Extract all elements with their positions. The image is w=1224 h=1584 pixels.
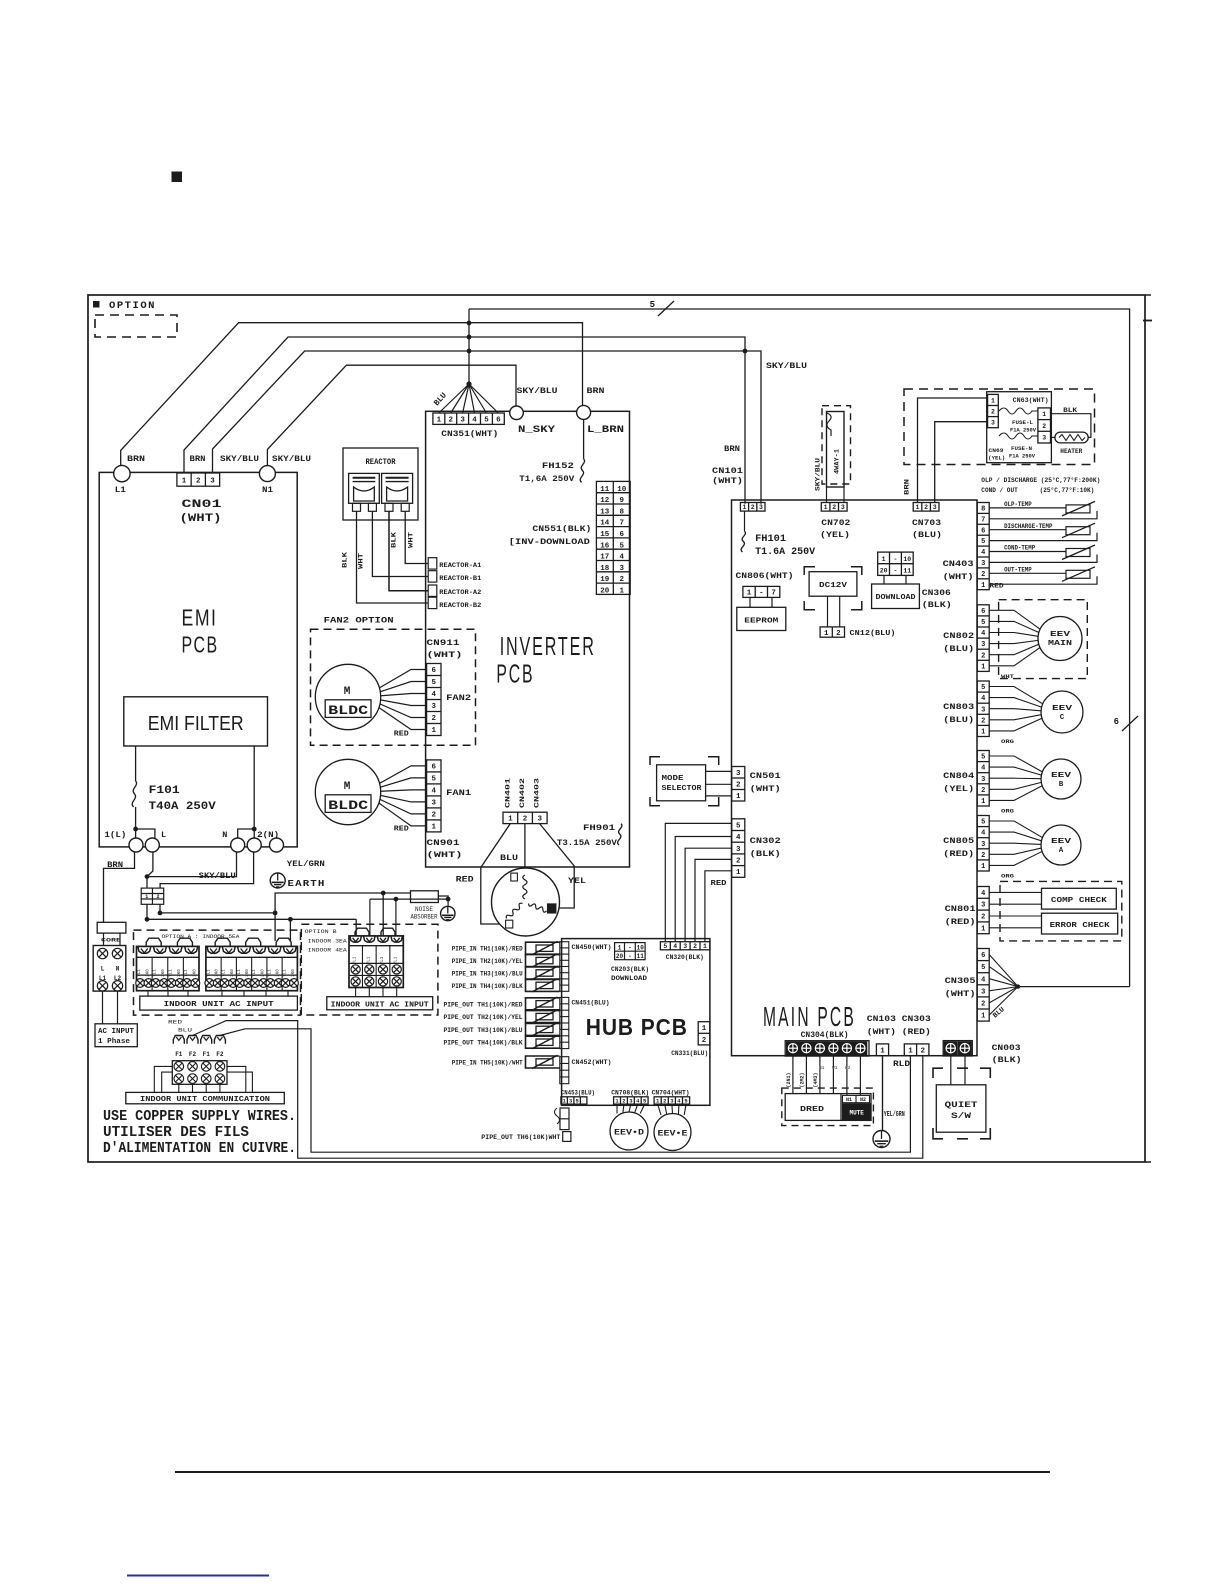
wire N distribution [160,911,278,942]
svg-text:CN501: CN501 [750,771,781,781]
svg-text:-: - [759,590,764,598]
svg-text:INDOOR 3EA: INDOOR 3EA [308,938,348,945]
svg-text:PIPE_IN TH2(10K)/YEL: PIPE_IN TH2(10K)/YEL [452,958,523,965]
svg-text:ORG: ORG [1001,808,1015,815]
svg-text:3: 3 [981,841,985,849]
text D'ALIMENTATION EN CUIVRE. [103,1140,296,1157]
label FAN2 OPTION [324,616,394,626]
label CN703 (BLU) [912,518,942,540]
svg-text:REACTOR-A1: REACTOR-A1 [439,562,481,570]
label CN69 (YEL) [988,447,1005,462]
valve EEV-E [654,1114,691,1151]
svg-text:2: 2 [1042,423,1046,430]
OPTION A INDOOR UNIT AC INPUT box [140,996,298,1010]
reactor coil module 2 [382,473,413,503]
svg-text:BLDC: BLDC [328,703,368,718]
svg-text:20: 20 [880,568,888,575]
svg-text:R1: R1 [819,1065,825,1071]
svg-text:(YEL): (YEL) [820,530,850,540]
svg-text:5: 5 [663,943,667,950]
OPTION A dashed box [134,930,301,1015]
svg-text:8: 8 [981,505,985,513]
text USE COPPER SUPPLY WIRES. [103,1108,296,1125]
AC INPUT 1 Phase box [95,1024,137,1047]
svg-text:3: 3 [759,504,763,511]
wire L1 to L_BRN [121,323,583,466]
svg-text:F2: F2 [216,1051,224,1058]
thermistor PIPE_IN TH1(10K)/RED [452,941,560,954]
wire grid left down [145,904,150,921]
svg-text:YL1: YL1 [268,969,272,977]
motor FAN1 BLDC [315,759,380,824]
svg-text:3: 3 [1042,434,1046,441]
HUB PCB box [562,939,710,1106]
svg-text:USE COPPER SUPPLY WIRES.: USE COPPER SUPPLY WIRES. [103,1108,296,1125]
label SKY/BLU (N_SKY wire) [517,386,558,396]
svg-text:CORE: CORE [101,937,122,944]
label CN101 (WHT) [712,466,743,486]
terminal N [231,838,245,852]
svg-text:BRN: BRN [127,454,145,464]
wire jumper to N [238,829,255,838]
terminal CN304 [785,1041,869,1056]
svg-text:(WHT): (WHT) [712,476,743,486]
svg-text:RED: RED [394,826,410,834]
connector CN551 table [596,481,630,595]
svg-text:(BLU): (BLU) [912,530,942,540]
svg-text:COND / OUT (25°C,77°F:10K: COND / OUT (25°C,77°F:10K) [981,486,1094,495]
label L [161,830,166,840]
svg-text:PCB: PCB [182,632,219,658]
label YEL compressor [568,876,586,886]
svg-text:4: 4 [472,416,477,424]
label tiny CN802 [1001,673,1015,680]
connector CN501 [732,767,745,802]
OPTION A terminal sub-block 1 [136,938,200,990]
svg-text:F101: F101 [149,785,180,797]
label CN351(WHT) [441,430,498,439]
svg-text:1: 1 [908,1048,913,1056]
wire CN01-3 to CN101-3 [213,351,762,504]
svg-text:2K0: 2K0 [178,969,182,977]
svg-text:CN320(BLK): CN320(BLK) [666,954,704,962]
connector CN320 [660,942,710,950]
label 1(L) [104,830,126,840]
wires CN803 to EEV C [989,687,1042,731]
svg-text:4: 4 [981,695,985,703]
svg-text:F1: F1 [203,1051,211,1058]
connector CN901 [427,760,441,832]
wires CN708 to EEV-D [617,1104,645,1113]
label CN704(WHT) [652,1090,690,1098]
wires OPTION A block to box [148,991,288,996]
svg-text:W2: W2 [845,1065,851,1071]
wires block to AC INPUT box [103,991,118,1024]
svg-text:EMI: EMI [182,605,218,631]
svg-text:2K0: 2K0 [162,969,166,977]
wire EMI FILTER left lead [135,746,137,781]
connector CN101 cells [740,503,765,512]
terminal F1F2 communication [172,1036,227,1085]
label RED FAN2 [394,731,410,739]
label N [222,830,227,840]
svg-text:OPTION: OPTION [109,300,156,312]
label CN453(BLU) [561,1090,595,1098]
svg-text:3: 3 [432,703,437,711]
svg-text:FUSE-N: FUSE-N [1011,445,1032,452]
connector CN401/402/403 [503,812,547,823]
label CN305 (WHT) [945,976,976,999]
svg-text:1: 1 [981,863,985,871]
footer blue link underline [127,1575,269,1577]
label CORE [101,937,122,944]
label L_BRN [587,425,624,436]
svg-text:BRN: BRN [190,454,206,464]
svg-text:1(L): 1(L) [104,830,126,840]
thermistor PIPE_IN TH5(10K)/WHT [452,1055,560,1068]
svg-text:BRN: BRN [904,479,911,495]
svg-text:1: 1 [747,590,752,598]
connector CN452 cells [560,1057,569,1084]
connector CN450 cells [560,942,569,992]
fuse FUSE-L [999,408,1038,414]
svg-text:EEV: EEV [1051,772,1072,780]
wire grid right down [158,904,163,915]
label CN702 (YEL) [820,518,850,540]
label tiny CN803 [1001,738,1015,745]
legend dashed option box [95,315,177,337]
label EARTH [288,878,326,889]
svg-text:(WHT): (WHT) [427,850,463,860]
connector CN451 cells [560,997,569,1048]
svg-text:20: 20 [616,953,624,960]
svg-text:CN911: CN911 [427,638,460,648]
svg-text:EARTH: EARTH [288,878,326,889]
wire NOISE to ground [438,896,448,906]
ERROR CHECK box [1042,913,1118,934]
svg-text:COMP CHECK: COMP CHECK [1051,897,1108,905]
NOISE ABSORBER box [411,891,439,903]
INVERTER PCB box [426,411,630,867]
terminal 1(L) [129,838,143,852]
label WHT wire2 [358,553,365,569]
svg-text:SELECTOR: SELECTOR [662,785,703,793]
label CN403 (WHT) [943,559,974,582]
label CN302 (BLK) [750,836,781,859]
label N1 [262,485,273,495]
svg-text:YL1: YL1 [253,969,257,977]
svg-text:2K0: 2K0 [292,969,296,977]
svg-text:EEV•E: EEV•E [658,1130,688,1139]
svg-text:T3.15A 250V: T3.15A 250V [557,838,618,848]
connector CN801 [977,887,989,934]
connector heater right cells [1038,408,1051,443]
svg-text:(2N1): (2N1) [786,1072,792,1087]
svg-text:BLK: BLK [1063,407,1077,414]
svg-text:1: 1 [824,630,829,638]
label EMI FILTER [148,713,244,735]
svg-text:CN703: CN703 [912,518,941,528]
svg-text:4: 4 [981,830,985,838]
wires CN804 to EEV B [989,756,1042,800]
compressor motor MC [492,868,560,936]
wire jumper to L [136,829,155,838]
label CN452(WHT) [572,1059,612,1067]
wire CN303-1 comm [220,1029,911,1152]
svg-text:BLK: BLK [342,552,349,568]
label BLK wire3 [391,532,398,548]
wires CORE to block [104,933,121,945]
svg-text:1: 1 [182,477,187,485]
svg-text:ORG: ORG [1001,738,1015,745]
svg-text:MUTE: MUTE [849,1110,864,1117]
wires OPTION B block to box [356,988,397,997]
svg-text:N: N [222,830,227,840]
svg-text:1: 1 [508,816,513,824]
svg-text:BLDC: BLDC [328,798,368,813]
svg-text:2: 2 [523,816,528,824]
svg-text:(BLU): (BLU) [943,644,974,654]
connector CN803 [977,681,989,737]
svg-text:DISCHARGE-TEMP: DISCHARGE-TEMP [1004,523,1052,530]
label CN12(BLU) [850,630,896,638]
connector CN63 left cells [988,394,999,427]
reactor terminal tabs [353,503,410,511]
label BRN rotated [904,479,911,495]
DC12V box [809,572,857,597]
label EMI PCB [182,605,219,658]
svg-text:5: 5 [981,538,985,546]
label FH901 T3.15A 250V [557,823,618,848]
svg-text:4: 4 [981,630,985,638]
svg-text:DOWNLOAD: DOWNLOAD [876,594,916,602]
svg-text:3: 3 [991,419,995,426]
svg-text:1: 1 [619,588,624,596]
connector CN12 [820,627,844,638]
label CN804 (YEL) [943,771,974,794]
wire CN703-3 to heater [935,422,988,503]
wire 4WAY to CN702-3 [843,487,845,503]
svg-text:INDOOR UNIT AC INPUT: INDOOR UNIT AC INPUT [331,1002,430,1010]
svg-text:L: L [161,830,166,840]
svg-text:UTILISER DES FILS: UTILISER DES FILS [103,1124,249,1141]
svg-text:5: 5 [650,300,655,310]
svg-text:CN803: CN803 [943,702,974,712]
svg-text:2: 2 [196,477,201,485]
svg-text:3: 3 [210,477,215,485]
svg-text:C: C [1060,714,1065,722]
terminal L_BRN [577,405,591,419]
ground EARTH symbol [270,873,285,888]
ferrite CORE box [97,922,126,933]
svg-text:F1A 250V: F1A 250V [1009,453,1036,460]
label EEV A [1051,838,1072,855]
svg-text:N1: N1 [262,485,273,495]
svg-text:2: 2 [981,571,985,579]
svg-text:(BLU): (BLU) [943,715,974,725]
thermistor PIPE_OUT TH6(10K)WHT [481,1132,571,1142]
svg-text:CN801: CN801 [945,904,976,914]
svg-text:CN452(WHT): CN452(WHT) [572,1059,612,1067]
svg-text:EEV: EEV [1051,838,1072,846]
label FH101 T1.6A 250V [755,534,815,558]
svg-text:FH152: FH152 [542,461,574,471]
svg-text:2K0: 2K0 [246,969,250,977]
svg-text:(RED): (RED) [945,917,976,927]
svg-text:ORG: ORG [1001,873,1015,880]
svg-text:6: 6 [1114,717,1119,727]
label YEL/GRN bottom [884,1111,905,1119]
label EEV B [1051,772,1072,789]
svg-text:N1: N1 [846,1097,852,1103]
svg-text:OPTION B: OPTION B [305,928,338,935]
label RED bundle [711,880,728,888]
svg-text:2: 2 [981,852,985,860]
REACTOR box [343,448,418,520]
svg-text:6: 6 [432,764,437,772]
valve EEV C [1041,691,1083,733]
svg-text:WHT: WHT [408,532,415,548]
svg-text:6: 6 [981,952,985,960]
label NOISE ABSORBER [411,906,438,921]
svg-text:(WHT): (WHT) [750,784,781,794]
fuse FH101 [741,531,745,552]
svg-text:YL1: YL1 [207,969,211,977]
svg-text:T40A 250V: T40A 250V [149,801,216,813]
label CN911 (WHT) [427,638,463,660]
svg-text:YL1: YL1 [169,969,173,977]
svg-text:PIPE_OUT TH3(10K)/BLU: PIPE_OUT TH3(10K)/BLU [444,1027,523,1034]
svg-text:CN003: CN003 [992,1043,1021,1053]
svg-text:YL1: YL1 [238,969,242,977]
svg-text:(WHT): (WHT) [427,650,463,660]
svg-text:OLP / DISCHARGE (25°C,77°F:200: OLP / DISCHARGE (25°C,77°F:200K) [981,476,1100,485]
label CN801 (RED) [945,904,976,927]
fuse FH901 [618,824,622,845]
svg-text:2(N): 2(N) [257,830,279,840]
svg-text:5: 5 [432,776,437,784]
svg-text:4WAY-1: 4WAY-1 [834,449,841,474]
svg-text:FAN2 OPTION: FAN2 OPTION [324,616,394,626]
label CN103 CN303 [867,1014,931,1037]
svg-text:11: 11 [903,568,911,575]
svg-text:WHT: WHT [1001,673,1015,680]
svg-text:2: 2 [693,943,697,950]
svg-text:OLP-TEMP: OLP-TEMP [1004,501,1032,508]
svg-text:CN351(WHT): CN351(WHT) [441,430,498,439]
svg-text:5: 5 [981,754,985,762]
EMI FILTER box [124,697,268,746]
svg-text:2: 2 [981,652,985,660]
svg-text:1: 1 [437,416,442,424]
junction dot wire4-wire5 crossing [743,349,748,354]
footer horizontal rule [175,1471,1050,1473]
svg-text:2: 2 [432,715,437,723]
label MAIN PCB [763,1001,856,1032]
svg-text:EMI FILTER: EMI FILTER [148,713,244,735]
svg-text:CN806(WHT): CN806(WHT) [736,571,794,581]
svg-text:CN306: CN306 [922,588,951,598]
wire heater cell3 [1051,436,1055,438]
svg-text:-: - [628,953,632,960]
svg-text:N2: N2 [860,1097,866,1103]
label CN01 (WHT) [180,499,223,525]
svg-text:PCB: PCB [496,659,534,689]
label CN901 (WHT) [427,838,463,860]
wire L distribution [147,917,356,941]
svg-text:CN01: CN01 [182,499,223,511]
svg-text:N_SKY: N_SKY [518,425,555,436]
svg-text:INVERTER: INVERTER [500,631,596,661]
svg-text:(YEL): (YEL) [988,455,1005,462]
label BLU rotated CN305 [992,1006,1007,1020]
wire CN402 to compressor V [524,824,526,873]
svg-text:CN702: CN702 [821,518,850,528]
wire bundle-5 top run [469,309,1130,987]
label CN708(BLK) [611,1090,649,1098]
thermistor DISCHARGE-TEMP [989,523,1097,541]
wire CN806 to EEPROM [750,597,772,607]
svg-text:1: 1 [702,1025,707,1033]
svg-text:CN101: CN101 [712,466,743,476]
wire heater cell1 loop [1051,414,1091,438]
label REACTOR [366,458,396,467]
check dashed box [1000,881,1122,941]
label BRN (L1) [127,454,145,464]
label OLP / DISCHARGE [981,476,1100,485]
svg-text:CN12(BLU): CN12(BLU) [850,630,896,638]
svg-text:4: 4 [981,549,985,557]
svg-text:YL1: YL1 [185,969,189,977]
wire L drop to core grid [146,877,148,889]
svg-text:REACTOR: REACTOR [366,458,396,467]
wires CN802 to EEV MAIN [989,610,1040,666]
bundle-5 slash marker [650,300,674,316]
connector CN708 [614,1097,649,1105]
comm bus right [227,1066,252,1092]
svg-text:3: 3 [537,816,542,824]
black square bullet top-left [172,172,182,182]
svg-text:4: 4 [981,765,985,773]
svg-text:1: 1 [981,1013,985,1021]
svg-text:2: 2 [981,1000,985,1008]
svg-text:RED: RED [990,583,1004,590]
wire DC12V to CN12 [828,596,840,627]
svg-text:CN331(BLU): CN331(BLU) [671,1050,708,1058]
svg-text:2K0: 2K0 [277,969,281,977]
label CN501 (WHT) [750,771,781,794]
svg-text:(4M3): (4M3) [813,1072,819,1087]
connector CN103 [876,1044,888,1056]
wires CN805 to EEV A [989,821,1042,865]
wire bundle drop to CN351 [468,309,470,384]
connector CN805 [977,816,989,872]
connector CN804 [977,751,989,807]
svg-text:T1.6A 250V: T1.6A 250V [755,547,815,558]
label RLD [893,1059,910,1069]
OPTION B INDOOR UNIT AC INPUT box [327,997,433,1010]
svg-text:-: - [628,945,632,952]
label L1 [115,485,126,495]
svg-text:YL1: YL1 [154,969,158,977]
svg-text:CN305: CN305 [945,976,976,986]
svg-text:1: 1 [981,925,985,933]
svg-text:NOISE: NOISE [415,906,433,913]
svg-text:2: 2 [448,416,453,424]
wires CN306 to DOWNLOAD [884,575,906,584]
svg-text:OUT-TEMP: OUT-TEMP [1004,567,1032,574]
svg-text:10: 10 [637,945,645,952]
